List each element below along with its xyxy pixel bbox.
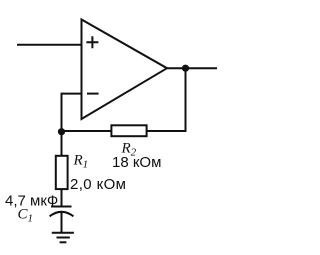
wire: feedback R2 to output — [147, 68, 186, 131]
wire: node to R2 — [62, 130, 112, 132]
wire: inverting input — [62, 94, 82, 132]
wire: non-inverting input — [17, 44, 82, 46]
svg-text:R1: R1 — [73, 153, 89, 171]
node: output junction — [182, 65, 189, 72]
wire: C1 to ground — [61, 212, 63, 233]
svg-text:4,7 мкФ: 4,7 мкФ — [5, 192, 58, 209]
wire: R1 to C1 — [61, 189, 63, 206]
resistor R2 — [111, 125, 146, 136]
- input marking — [87, 93, 99, 95]
node: inverting input junction — [58, 128, 65, 135]
svg-text:2,0 кОм: 2,0 кОм — [70, 176, 126, 193]
svg-text:18 кОм: 18 кОм — [112, 154, 161, 171]
capacitor C1 — [50, 207, 74, 217]
resistor R1 — [56, 156, 68, 189]
wire: output — [167, 67, 217, 69]
wire: node to R1 — [61, 132, 63, 157]
ground — [52, 233, 74, 243]
+ input marking — [86, 36, 98, 48]
op-amp U1 — [82, 20, 168, 120]
